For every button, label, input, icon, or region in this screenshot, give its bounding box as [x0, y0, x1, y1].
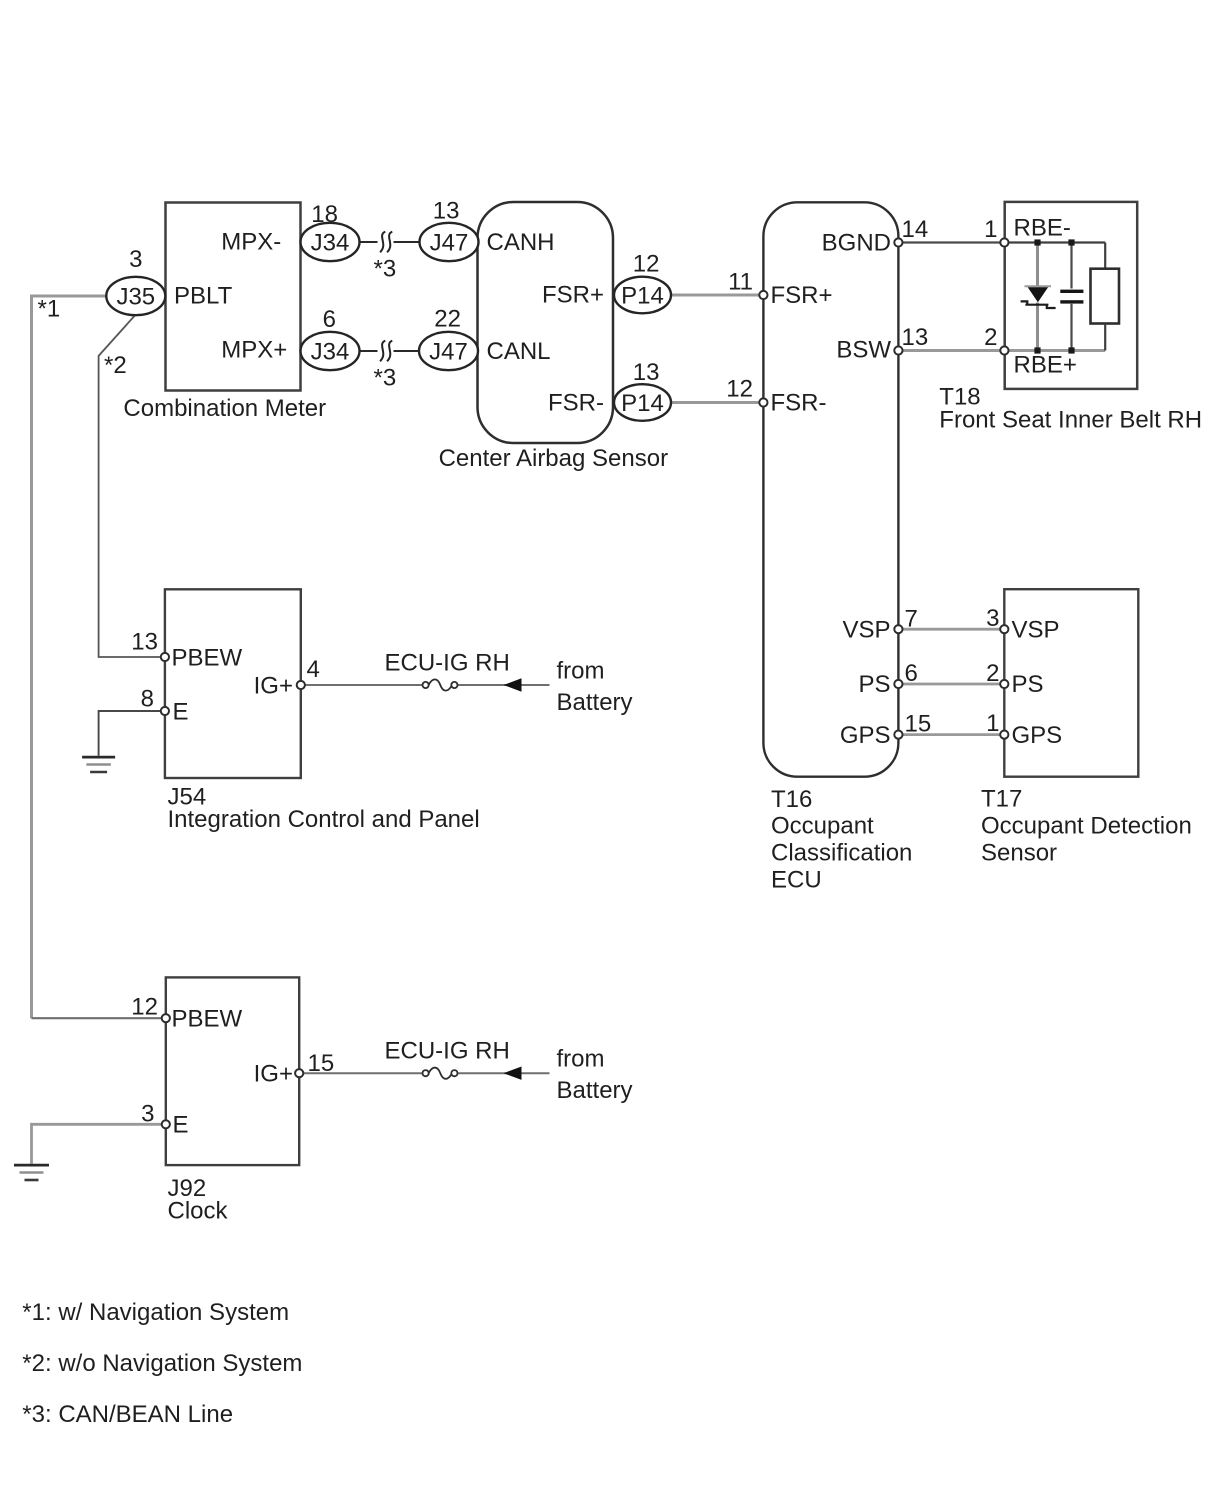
- svg-text:Front Seat Inner Belt RH: Front Seat Inner Belt RH: [939, 407, 1202, 434]
- svg-text:12: 12: [726, 376, 753, 403]
- svg-text:6: 6: [323, 306, 336, 333]
- svg-text:12: 12: [633, 251, 660, 278]
- svg-text:from: from: [557, 658, 605, 685]
- svg-text:*3: *3: [374, 256, 397, 283]
- svg-text:*2: w/o Navigation System: *2: w/o Navigation System: [22, 1350, 302, 1377]
- svg-text:J47: J47: [429, 338, 468, 365]
- svg-text:*3: *3: [374, 365, 397, 392]
- svg-text:3: 3: [129, 246, 142, 273]
- svg-text:Battery: Battery: [557, 1077, 633, 1104]
- svg-text:ECU-IG RH: ECU-IG RH: [385, 650, 510, 677]
- svg-text:J35: J35: [116, 283, 155, 310]
- svg-text:13: 13: [131, 629, 158, 656]
- svg-text:FSR-: FSR-: [771, 390, 827, 417]
- svg-text:15: 15: [905, 711, 932, 738]
- svg-text:*1: w/ Navigation System: *1: w/ Navigation System: [22, 1299, 289, 1326]
- svg-text:PBEW: PBEW: [172, 1006, 243, 1033]
- svg-text:Classification: Classification: [771, 840, 912, 867]
- svg-text:*3: CAN/BEAN Line: *3: CAN/BEAN Line: [22, 1401, 233, 1428]
- svg-text:IG+: IG+: [254, 673, 293, 700]
- svg-text:Battery: Battery: [557, 689, 633, 716]
- svg-text:VSP: VSP: [1012, 617, 1060, 644]
- svg-text:Sensor: Sensor: [981, 840, 1057, 867]
- svg-text:Clock: Clock: [168, 1198, 229, 1225]
- svg-text:P14: P14: [621, 282, 664, 309]
- svg-text:Occupant: Occupant: [771, 813, 874, 840]
- svg-text:13: 13: [433, 198, 460, 225]
- svg-text:13: 13: [902, 324, 929, 351]
- svg-text:PBEW: PBEW: [172, 645, 243, 672]
- svg-text:3: 3: [141, 1101, 154, 1128]
- svg-text:8: 8: [141, 686, 154, 713]
- svg-text:J34: J34: [311, 338, 350, 365]
- svg-text:*2: *2: [104, 352, 127, 379]
- svg-text:CANH: CANH: [487, 229, 555, 256]
- svg-text:T16: T16: [771, 786, 812, 813]
- svg-text:22: 22: [434, 306, 461, 333]
- svg-text:3: 3: [986, 605, 999, 632]
- svg-text:6: 6: [905, 660, 918, 687]
- svg-text:J34: J34: [311, 229, 350, 256]
- svg-text:18: 18: [311, 201, 338, 228]
- svg-text:from: from: [557, 1046, 605, 1073]
- svg-text:12: 12: [131, 994, 158, 1021]
- svg-text:VSP: VSP: [842, 617, 890, 644]
- svg-text:E: E: [173, 1112, 189, 1139]
- svg-text:FSR-: FSR-: [548, 390, 604, 417]
- svg-text:*1: *1: [38, 296, 61, 323]
- svg-text:CANL: CANL: [487, 338, 551, 365]
- svg-text:PS: PS: [1012, 671, 1044, 698]
- svg-text:BGND: BGND: [822, 230, 891, 257]
- svg-text:1: 1: [986, 710, 999, 737]
- svg-text:13: 13: [633, 359, 660, 386]
- svg-text:MPX-: MPX-: [221, 229, 281, 256]
- svg-text:Combination Meter: Combination Meter: [123, 395, 326, 422]
- svg-text:Occupant Detection: Occupant Detection: [981, 813, 1192, 840]
- svg-text:1: 1: [984, 216, 997, 243]
- svg-text:J47: J47: [430, 229, 469, 256]
- svg-text:IG+: IG+: [254, 1061, 293, 1088]
- svg-text:GPS: GPS: [840, 722, 891, 749]
- svg-text:15: 15: [308, 1050, 335, 1077]
- svg-text:P14: P14: [621, 390, 664, 417]
- svg-text:T17: T17: [981, 786, 1022, 813]
- svg-text:E: E: [173, 699, 189, 726]
- svg-text:14: 14: [902, 216, 929, 243]
- svg-text:BSW: BSW: [836, 337, 891, 364]
- svg-text:GPS: GPS: [1012, 722, 1063, 749]
- svg-text:ECU: ECU: [771, 867, 822, 894]
- svg-text:ECU-IG RH: ECU-IG RH: [385, 1038, 510, 1065]
- svg-text:MPX+: MPX+: [221, 337, 287, 364]
- svg-text:2: 2: [984, 324, 997, 351]
- svg-text:RBE-: RBE-: [1014, 215, 1071, 242]
- svg-text:Integration Control and Panel: Integration Control and Panel: [168, 806, 480, 833]
- svg-text:4: 4: [307, 656, 320, 683]
- svg-text:PS: PS: [858, 671, 890, 698]
- svg-text:RBE+: RBE+: [1014, 352, 1077, 379]
- svg-text:11: 11: [728, 269, 753, 296]
- svg-text:7: 7: [905, 606, 918, 633]
- svg-text:FSR+: FSR+: [771, 282, 833, 309]
- svg-text:2: 2: [986, 660, 999, 687]
- svg-text:Center Airbag Sensor: Center Airbag Sensor: [439, 445, 668, 472]
- svg-text:PBLT: PBLT: [174, 283, 233, 310]
- svg-text:FSR+: FSR+: [542, 282, 604, 309]
